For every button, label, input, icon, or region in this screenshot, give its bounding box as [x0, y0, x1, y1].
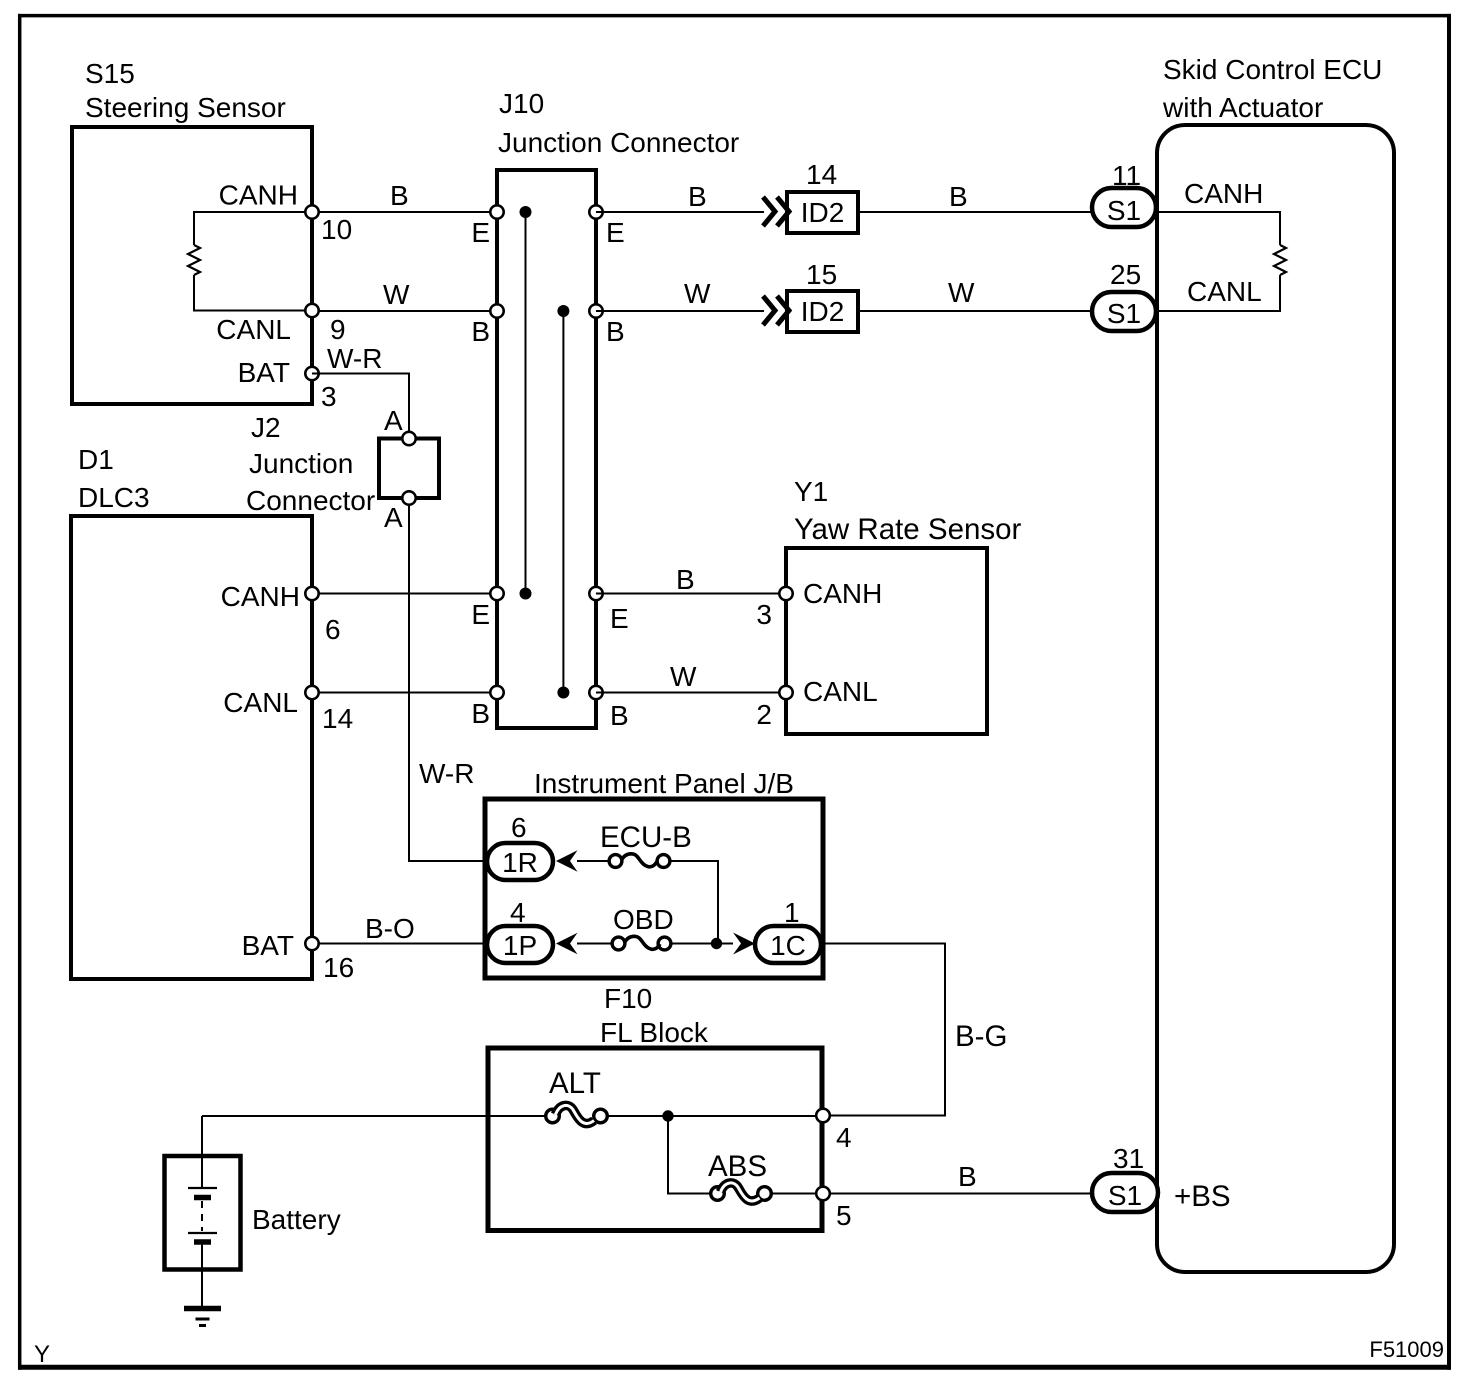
J10 pin B row2 right [589, 304, 602, 317]
ground [184, 1306, 221, 1312]
wire to ECU-B fuse [577, 860, 609, 862]
svg-text:Instrument Panel J/B: Instrument Panel J/B [534, 768, 794, 799]
svg-text:B: B [958, 1161, 977, 1192]
svg-text:CANH: CANH [1184, 178, 1263, 209]
svg-text:B: B [390, 180, 409, 211]
svg-text:B-G: B-G [955, 1020, 1007, 1053]
svg-text:10: 10 [321, 214, 352, 245]
svg-text:1: 1 [784, 897, 800, 928]
svg-text:E: E [610, 603, 629, 634]
junction dot at 1C branch [711, 938, 722, 949]
svg-text:11: 11 [1112, 160, 1141, 191]
svg-text:ECU-B: ECU-B [600, 821, 692, 854]
wire ABS to pin5 [771, 1193, 816, 1195]
svg-text:E: E [471, 217, 490, 248]
svg-text:A: A [384, 405, 403, 436]
svg-text:3: 3 [756, 599, 772, 630]
fuse OBD [612, 937, 625, 950]
svg-text:W-R: W-R [327, 343, 382, 374]
junction dot row3 [520, 588, 532, 600]
svg-text:W-R: W-R [419, 758, 474, 789]
chevron arrow row2 [763, 296, 775, 325]
svg-text:4: 4 [510, 897, 526, 928]
pin 14 DLC3 CANL [305, 686, 318, 699]
J2 pin A top [402, 432, 415, 445]
svg-text:B: B [471, 698, 490, 729]
svg-text:Y: Y [34, 1341, 50, 1368]
junction dot at ABS branch [662, 1110, 673, 1121]
svg-text:J2: J2 [251, 412, 281, 443]
Y1 yaw rate sensor box [786, 548, 987, 734]
svg-text:E: E [471, 599, 490, 630]
Instrument Panel J/B box [485, 799, 823, 978]
svg-text:S15: S15 [85, 58, 135, 89]
svg-text:S1: S1 [1107, 298, 1141, 329]
border frame [18, 14, 22, 1370]
svg-text:CANH: CANH [219, 180, 298, 211]
chevron arrow row1 [763, 197, 775, 226]
wire DLC3 CANH to J10 [312, 593, 497, 595]
wire to OBD fuse [577, 943, 612, 945]
wire CANL S15 to J10 [312, 310, 497, 312]
pin 9 S15 CANL [305, 304, 318, 317]
J10 inner wire E (CANH bus) [525, 212, 527, 594]
wire DLC3 CANL to J10 [312, 692, 497, 694]
J10 junction connector box [497, 170, 596, 728]
J10 pin B row2 left [490, 304, 503, 317]
wire ID2 to S1 row2 [858, 310, 1092, 312]
svg-text:ALT: ALT [549, 1067, 601, 1100]
svg-text:W: W [948, 277, 975, 308]
connector ID2 pin 15 [787, 291, 858, 332]
arrow into 1C [733, 933, 755, 955]
wire into battery [201, 1116, 203, 1188]
wire row1 J10 to ID2 [596, 211, 764, 213]
FL Block pin 4 [816, 1109, 830, 1123]
svg-text:J10: J10 [499, 88, 544, 119]
svg-text:14: 14 [322, 703, 353, 734]
pin 3 S15 BAT [305, 367, 318, 380]
wire ID2 to S1 row1 [858, 211, 1092, 213]
wire row4 J10 to Y1 [596, 692, 786, 694]
svg-text:CANH: CANH [803, 578, 882, 609]
ECU internal resistor loop [1159, 212, 1280, 311]
resistor in S15 [194, 212, 310, 311]
svg-text:B: B [949, 181, 968, 212]
svg-text:Skid Control ECU: Skid Control ECU [1163, 54, 1382, 85]
svg-text:Connector: Connector [246, 485, 375, 516]
svg-text:BAT: BAT [242, 930, 294, 961]
Skid Control ECU box [1157, 125, 1394, 1272]
J10 pin E row1 left [490, 205, 503, 218]
Y1 pin 3 [779, 587, 792, 600]
svg-text:2: 2 [756, 699, 772, 730]
svg-text:1P: 1P [503, 930, 537, 961]
fuse ECU-B [609, 855, 622, 868]
arrow into 1R [556, 850, 578, 871]
connector S1 pin 11 [1092, 188, 1156, 227]
svg-text:D1: D1 [78, 444, 114, 475]
svg-text:Y1: Y1 [794, 476, 828, 507]
wire ALT to pin4 [607, 1115, 816, 1117]
svg-text:S1: S1 [1108, 1180, 1142, 1211]
svg-text:5: 5 [836, 1200, 852, 1231]
svg-text:BAT: BAT [238, 357, 290, 388]
svg-text:OBD: OBD [613, 904, 674, 935]
J10 pin E row3 left [490, 587, 503, 600]
svg-text:F51009: F51009 [1369, 1337, 1444, 1362]
connector 1P [487, 926, 553, 963]
svg-text:with Actuator: with Actuator [1162, 92, 1323, 123]
battery box [165, 1156, 241, 1270]
wire pin5 to S1 31 [830, 1193, 1092, 1195]
battery plates [188, 1187, 217, 1189]
svg-text:31: 31 [1113, 1143, 1144, 1174]
J10 inner wire B (CANL bus) [562, 311, 564, 693]
svg-text:A: A [384, 502, 403, 533]
wire CANH S15 to J10 [312, 211, 497, 213]
fusible link ABS [711, 1187, 725, 1201]
wire battery to ground [201, 1244, 203, 1306]
J10 pin B row4 left [490, 686, 503, 699]
svg-text:ID2: ID2 [801, 197, 845, 228]
wire junction down to ABS [668, 1116, 711, 1194]
svg-text:25: 25 [1110, 259, 1141, 290]
J10 pin E row1 right [589, 205, 602, 218]
FL Block pin 5 [816, 1187, 830, 1201]
svg-text:F10: F10 [604, 983, 652, 1014]
connector ID2 pin 14 [787, 192, 858, 233]
junction dot row1 [520, 206, 532, 218]
svg-text:CANL: CANL [223, 687, 298, 718]
svg-text:+BS: +BS [1174, 1180, 1231, 1213]
svg-text:1R: 1R [502, 847, 538, 878]
connector 1C [755, 926, 821, 963]
junction dot row2 [557, 305, 569, 317]
svg-text:B-O: B-O [365, 913, 415, 944]
J2 junction connector box [379, 439, 439, 499]
svg-text:W: W [383, 279, 410, 310]
svg-text:FL Block: FL Block [600, 1017, 709, 1048]
J10 pin B row4 right [589, 686, 602, 699]
svg-text:3: 3 [321, 381, 337, 412]
connector S1 pin 25 [1092, 292, 1156, 331]
junction dot row4 [557, 687, 569, 699]
fusible link ALT [546, 1109, 560, 1123]
svg-text:CANL: CANL [1187, 276, 1262, 307]
pin 6 DLC3 CANH [305, 587, 318, 600]
svg-text:15: 15 [806, 259, 837, 290]
wire row2 J10 to ID2 [596, 310, 764, 312]
FL Block box [488, 1048, 822, 1231]
J2 pin A bottom [402, 491, 415, 504]
wire 1C to FL block pin4 [821, 944, 945, 1116]
svg-text:6: 6 [325, 614, 341, 645]
svg-text:DLC3: DLC3 [78, 482, 150, 513]
steering sensor S15 box [72, 127, 312, 404]
pin 10 S15 CANH [305, 205, 318, 218]
svg-text:Battery: Battery [252, 1204, 341, 1235]
D1 DLC3 box [71, 516, 312, 979]
svg-text:14: 14 [806, 159, 837, 190]
svg-text:9: 9 [330, 314, 346, 345]
svg-text:ABS: ABS [708, 1150, 767, 1183]
Y1 pin 2 [779, 686, 792, 699]
svg-text:Junction: Junction [249, 448, 353, 479]
wire OBD to 1C [671, 943, 733, 945]
svg-text:ID2: ID2 [801, 296, 845, 327]
connector S1 pin 31 [1092, 1173, 1158, 1212]
svg-text:Yaw Rate Sensor: Yaw Rate Sensor [794, 513, 1022, 546]
wire row3 J10 to Y1 [596, 593, 786, 595]
svg-text:CANL: CANL [803, 676, 878, 707]
wire ECU-B to junction [670, 861, 718, 944]
wire battery to ALT [202, 1115, 546, 1117]
arrow into 1P [556, 933, 578, 954]
svg-text:B: B [688, 181, 707, 212]
svg-text:W: W [684, 278, 711, 309]
svg-text:E: E [606, 217, 625, 248]
svg-text:CANL: CANL [216, 314, 291, 345]
connector 1R [487, 843, 553, 880]
wire DLC3 BAT to 1P [312, 943, 487, 945]
svg-text:CANH: CANH [221, 581, 300, 612]
svg-text:16: 16 [323, 952, 354, 983]
svg-text:W: W [670, 661, 697, 692]
W-R wire from S15 BAT to J2 to 1R [312, 374, 487, 862]
svg-text:B: B [471, 316, 490, 347]
J10 pin E row3 right [589, 587, 602, 600]
svg-text:B: B [676, 564, 695, 595]
svg-text:Steering Sensor: Steering Sensor [85, 92, 286, 123]
svg-text:4: 4 [836, 1122, 852, 1153]
svg-text:S1: S1 [1107, 195, 1141, 226]
svg-text:B: B [610, 700, 629, 731]
svg-text:B: B [606, 316, 625, 347]
pin 16 DLC3 BAT [305, 937, 318, 950]
svg-text:1C: 1C [770, 930, 806, 961]
svg-text:6: 6 [511, 812, 527, 843]
svg-text:Junction Connector: Junction Connector [498, 127, 739, 158]
